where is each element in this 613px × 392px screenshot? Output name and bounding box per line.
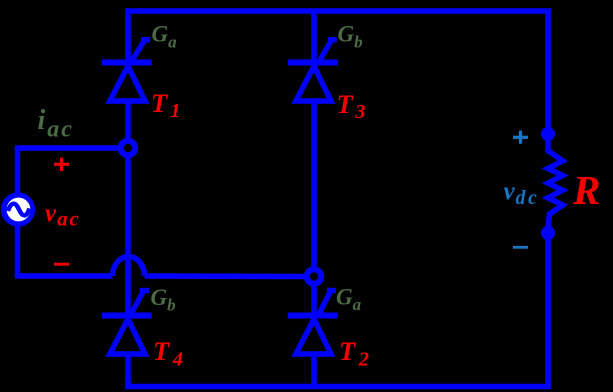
wire T2 anode to bottom rail [311, 352, 317, 387]
wire T3 cathode leg to top rail [311, 9, 317, 65]
wire right leg lower (load - terminal to bottom rail) [545, 231, 551, 387]
thyristor T4 [102, 291, 152, 355]
wire T3 anode down to node B [311, 99, 317, 267]
minus sign at source [54, 263, 69, 266]
wire node A to source positive terminal [15, 145, 120, 151]
node B [307, 269, 322, 284]
ac source v_ac [1, 192, 35, 226]
wire node A down to T4 cathode [125, 154, 131, 313]
junction dot at load + terminal [541, 127, 555, 141]
svg-text:R: R [572, 167, 600, 213]
wire T1 anode to node A [125, 100, 131, 142]
thyristor T3 [288, 40, 338, 101]
thyristor T1 [102, 40, 152, 101]
wire right leg upper (top rail to load + terminal) [545, 11, 551, 136]
wire source negative terminal to hop [15, 273, 113, 279]
wire crossover hop over node-A branch [113, 257, 145, 277]
node A [121, 141, 136, 156]
minus sign at load [513, 246, 528, 249]
plus sign at load [513, 131, 528, 144]
wire top rail (T1 cathode to right leg) [125, 8, 551, 14]
wire node B to T2 cathode [311, 286, 317, 313]
wire T4 anode to bottom rail [125, 352, 131, 387]
resistor R [548, 140, 563, 230]
thyristor T2 [288, 291, 338, 355]
plus sign at source [54, 158, 69, 171]
wire bottom rail (T4 anode to right leg) [125, 384, 551, 390]
wire hop to node B [145, 273, 306, 279]
wire source left leg [15, 148, 21, 276]
junction dot at load - terminal [541, 226, 555, 240]
wire T1 cathode leg to top rail [125, 14, 131, 64]
